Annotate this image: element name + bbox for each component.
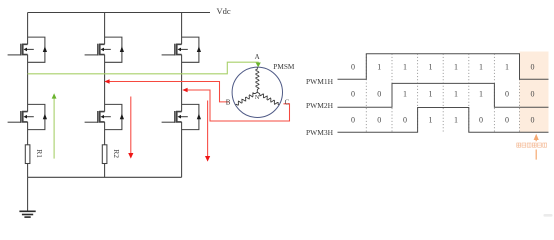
PWM2H bit values xyxy=(351,90,535,99)
svg-text:0: 0 xyxy=(351,116,355,125)
wire ground lead xyxy=(27,177,29,211)
svg-text:N: N xyxy=(255,94,260,101)
ground xyxy=(19,211,35,217)
svg-text:1: 1 xyxy=(429,116,433,125)
svg-text:1: 1 xyxy=(377,63,381,72)
wire PWM3H waveform xyxy=(338,108,549,133)
wire leg2 mid xyxy=(104,55,106,112)
transistor Q3 with diode D3 xyxy=(85,37,124,62)
svg-text:0: 0 xyxy=(505,116,509,125)
svg-text:0: 0 xyxy=(377,116,381,125)
wire leg1 upper drain xyxy=(27,13,29,45)
svg-text:0: 0 xyxy=(505,90,509,99)
wire leg3 to bottom rail xyxy=(181,122,183,177)
transistor Q4 with diode D4 xyxy=(85,104,124,129)
sampling interval shaded region xyxy=(520,52,549,133)
svg-text:PWM2H: PWM2H xyxy=(306,101,334,110)
wire phase B current path (red) xyxy=(107,82,229,102)
svg-text:0: 0 xyxy=(531,90,535,99)
svg-text:0: 0 xyxy=(351,63,355,72)
wire leg2 lower xyxy=(104,122,106,145)
svg-text:1: 1 xyxy=(479,90,483,99)
transistor Q5 with diode D5 xyxy=(162,37,201,62)
svg-text:C: C xyxy=(285,99,290,107)
red arrowhead into leg2 node xyxy=(104,79,109,84)
wire leg1 lower xyxy=(27,122,29,145)
svg-text:PMSM: PMSM xyxy=(273,62,295,71)
transistor Q1 with diode D1 xyxy=(8,37,47,62)
red current arrow leg3 xyxy=(207,101,209,157)
resistor R1 xyxy=(25,145,30,164)
annotation current sampling arrow (orange) xyxy=(535,140,537,160)
wire leg1 mid xyxy=(27,55,29,112)
svg-text:1: 1 xyxy=(403,63,407,72)
annotation current sampling text (Chinese glyph marks) xyxy=(517,143,547,147)
svg-text:A: A xyxy=(255,53,260,61)
svg-text:0: 0 xyxy=(403,116,407,125)
watermark xyxy=(544,214,553,217)
wire PWM1H waveform xyxy=(338,54,549,80)
wire leg3 mid xyxy=(181,55,183,112)
green arrowhead into node A xyxy=(256,63,261,68)
svg-text:0: 0 xyxy=(531,116,535,125)
pwm chart dotted gridlines xyxy=(366,54,519,133)
motor PMSM stator circle xyxy=(232,67,282,117)
wire Vdc top rail xyxy=(28,12,210,14)
transistor Q6 with diode D6 xyxy=(162,104,201,129)
svg-text:1: 1 xyxy=(505,63,509,72)
svg-text:1: 1 xyxy=(479,63,483,72)
red current arrow leg2 xyxy=(130,97,132,154)
resistor R2 xyxy=(102,145,107,164)
svg-text:1: 1 xyxy=(454,116,458,125)
svg-text:1: 1 xyxy=(454,90,458,99)
wire leg3 upper drain xyxy=(181,13,183,45)
wire leg1 to bottom rail xyxy=(27,164,29,178)
svg-text:Vdc: Vdc xyxy=(217,6,231,16)
svg-text:1: 1 xyxy=(429,63,433,72)
svg-text:0: 0 xyxy=(531,63,535,72)
red arrowhead into leg3 node xyxy=(182,88,187,93)
wire leg2 upper drain xyxy=(104,13,106,45)
wire phase C current path (red) xyxy=(185,90,290,121)
svg-text:R1: R1 xyxy=(35,149,44,158)
svg-text:1: 1 xyxy=(454,63,458,72)
PWM3H bit values xyxy=(351,116,535,125)
svg-text:PWM3H: PWM3H xyxy=(306,128,334,137)
svg-text:1: 1 xyxy=(429,90,433,99)
svg-text:0: 0 xyxy=(377,90,381,99)
svg-text:1: 1 xyxy=(403,90,407,99)
PWM1H bit values xyxy=(351,63,535,72)
svg-text:B: B xyxy=(226,99,231,107)
wire leg2 to bottom rail xyxy=(104,164,106,178)
svg-text:R2: R2 xyxy=(112,149,121,158)
wire PWM2H waveform xyxy=(338,83,549,107)
svg-text:0: 0 xyxy=(479,116,483,125)
motor winding phase C coil xyxy=(257,92,279,105)
wire phase A current path (green) xyxy=(28,62,259,74)
transistor Q2 with diode D2 xyxy=(8,104,47,129)
green current arrow leg1 xyxy=(53,98,55,159)
motor winding phase A coil xyxy=(256,67,259,92)
motor winding phase B coil xyxy=(236,92,258,105)
svg-text:0: 0 xyxy=(351,90,355,99)
svg-text:PWM1H: PWM1H xyxy=(306,77,334,86)
wire bottom rail xyxy=(28,176,182,178)
